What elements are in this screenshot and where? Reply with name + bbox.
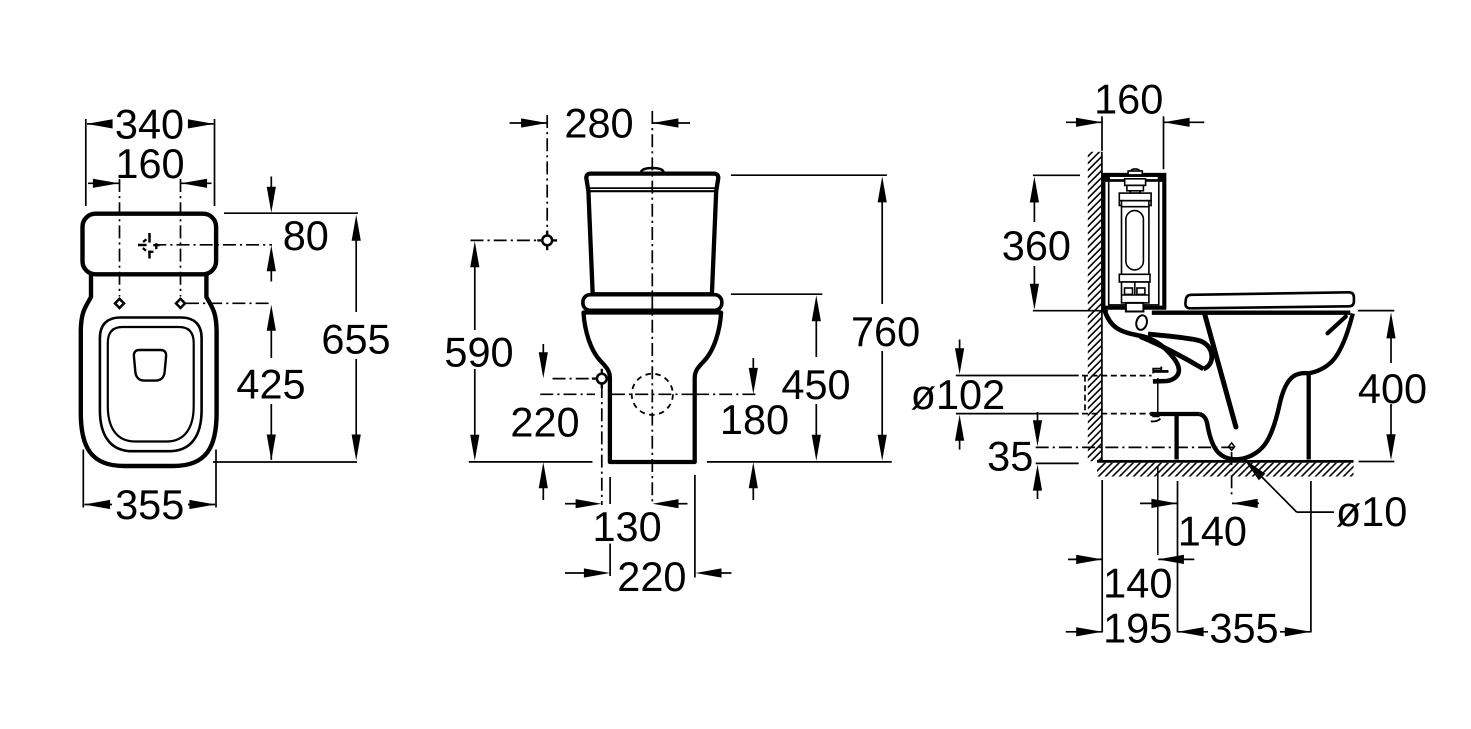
side view: floor hatching (1090, 459, 1368, 478)
svg-text:195: 195 (1103, 604, 1172, 651)
dim 400 extension top (1358, 310, 1395, 312)
dim ø102 line lower (956, 413, 1079, 415)
top view: fixing cross symbol (138, 233, 160, 259)
top view: hole centerline right (vertical dash-dot) (180, 179, 182, 297)
front view: cistern tank outline (586, 174, 718, 295)
side view: supply dashed vertical (1084, 376, 1086, 414)
top view: hole centerline left (vertical dash-dot) (119, 179, 121, 297)
side view: tank lid line (1104, 179, 1164, 181)
dim 160 extension left (1101, 116, 1103, 151)
top view: fixing hole diamond left (115, 299, 124, 308)
side view: tank inner wall (1109, 181, 1159, 305)
dim 655 line+arrows (355, 226, 357, 312)
dim 590 line+arrows (474, 252, 476, 330)
svg-text:355: 355 (1209, 604, 1278, 651)
dim ø10 leader (1248, 463, 1297, 513)
front view: flush button dome (640, 168, 666, 174)
top view: seat outer ring (100, 318, 202, 452)
dim 340 line+arrows (87, 123, 112, 125)
dim ø102 arrows (959, 340, 961, 350)
dim 360 extension bottom (1033, 310, 1108, 312)
dim 160 arrows (1066, 121, 1102, 123)
front view: water inlet centerline (vertical dash-dot) (546, 115, 548, 235)
dim 80 arrows (270, 177, 272, 191)
svg-text:ø10: ø10 (1336, 488, 1408, 535)
dim 340 extension line right (214, 119, 216, 206)
dim 130 arrows (565, 503, 576, 505)
svg-text:130: 130 (592, 503, 661, 550)
dim 220 left arrows (542, 344, 544, 357)
front view: seat shadow line (599, 311, 705, 313)
front view: drain centerline left (dash-dot) (540, 393, 595, 395)
svg-text:140: 140 (1178, 507, 1247, 554)
side view: pedestal front-left leg (1174, 415, 1178, 460)
top view: seat inner ring (108, 327, 194, 442)
side view: tank lid corner bolts (1105, 177, 1110, 182)
side view: wall hatching (746, 132, 1427, 470)
svg-text:450: 450 (781, 361, 850, 408)
svg-text:220: 220 (510, 398, 579, 445)
side view: fill/flush valve mechanism (1119, 169, 1151, 303)
front view: inlet target symbol (537, 231, 557, 251)
side view: rim channel lower stroke (1140, 337, 1204, 370)
top view: tank centerline (horizontal dash-dot) (153, 244, 272, 246)
dim 450 extension line top (731, 293, 822, 295)
svg-text:160: 160 (115, 140, 184, 187)
front view: drain dashed circle (632, 374, 673, 415)
side view: bowl front curve (1309, 314, 1353, 374)
svg-text:180: 180 (720, 396, 789, 443)
side view: drain diamond (1229, 443, 1235, 450)
side view: bowl deck / rim line (1152, 311, 1351, 315)
svg-text:760: 760 (851, 308, 920, 355)
dim 400 extension bottom (1359, 461, 1395, 463)
side view: rim channel upper stroke (1148, 334, 1212, 369)
svg-text:ø102: ø102 (911, 371, 1006, 418)
top view: bowl body outline (81, 271, 217, 466)
dim 140 lower arrows (1068, 558, 1102, 560)
side view: stub connecting line (1157, 378, 1159, 414)
pedestal extension line right (694, 475, 696, 578)
dim 180 arrows (752, 358, 754, 371)
pedestal front extension below floor (1177, 481, 1179, 633)
side view: supply dashed line lower (1082, 413, 1150, 415)
side view: upper outlet stub (1153, 370, 1169, 373)
front view: inlet cross horizontal (dash-dot) (471, 239, 554, 241)
side view: bowl back diagonal (1205, 315, 1236, 428)
left view bottom extension line (213, 461, 357, 463)
side view: pedestal front-right leg (1307, 374, 1311, 460)
svg-text:590: 590 (444, 329, 513, 376)
side view: flush elbow curve and bowl back S-curve (1104, 309, 1179, 381)
dim 35 drain centerline (dash-dot) (1036, 446, 1238, 448)
dim ø102 line upper (956, 375, 1079, 377)
side view: supply dashed line upper (1082, 375, 1152, 377)
pedestal rear extension below floor (1310, 481, 1312, 633)
svg-text:280: 280 (564, 100, 633, 147)
tank top extension line (to 80/655 dims) (224, 212, 358, 214)
front view: drain centerline right (dash-dot) (696, 393, 758, 395)
pedestal extension line left (609, 477, 611, 504)
front view: side hole target symbol (592, 369, 612, 389)
dim 35 arrows (1037, 412, 1039, 421)
svg-text:140: 140 (1103, 559, 1172, 606)
dim 280 arrows (510, 122, 548, 124)
dim 355 line+arrows (85, 504, 113, 506)
svg-text:425: 425 (236, 361, 305, 408)
side view: floor line (1097, 460, 1354, 463)
dim 360 line+arrows (1033, 187, 1035, 222)
front view: bowl and pedestal outline (584, 313, 722, 463)
dim 425 line+arrows (270, 317, 272, 358)
side view: tank outlet stub (1126, 303, 1144, 312)
front view: vertical centerline (dash-dot) (651, 111, 653, 505)
outlet stub extension below floor (1157, 466, 1159, 555)
dim 140 upper arrows (1140, 502, 1177, 504)
svg-text:220: 220 (617, 553, 686, 600)
dim 35 floor extension (1036, 462, 1079, 464)
dim 760 extension line top (731, 174, 887, 176)
dim 360 extension top (1033, 174, 1080, 176)
top view: hole line to 425 dim (horizontal dash-dot) (186, 302, 272, 304)
dim 340 extension line left (85, 119, 87, 206)
top view: cistern tank outline (83, 214, 217, 275)
side view: flush elbow oval (1135, 314, 1149, 331)
front view floor extension right (707, 461, 892, 463)
dim 400 line+arrows (1390, 324, 1392, 363)
side view: lower outlet stub hook (1151, 416, 1161, 421)
front view: seat slab (583, 295, 722, 311)
front view: side hole centerline (horizontal dash-dot) (553, 378, 596, 380)
front view: side hole centerline vertical (dash-dot) (601, 385, 603, 505)
svg-text:360: 360 (1002, 222, 1071, 269)
dim 160 arrows (88, 182, 119, 184)
dim 450 line+arrows (815, 306, 817, 357)
dim 195 arrow (1066, 631, 1102, 633)
dim 160 extension right (1163, 116, 1165, 169)
wall face extension below floor (1101, 480, 1103, 633)
dim 220 bottom arrows (565, 572, 584, 574)
drain centerline below floor (dash-dot) (1231, 452, 1233, 498)
svg-text:80: 80 (283, 212, 329, 259)
dim 355 extension line left (82, 450, 84, 508)
front view: tank lid lines (589, 187, 716, 189)
side view: trap U curve (1200, 373, 1309, 459)
svg-text:400: 400 (1358, 365, 1427, 412)
side view: inner rim stroke (1328, 317, 1346, 334)
svg-text:655: 655 (321, 315, 390, 362)
side view: seat profile (1185, 292, 1354, 308)
side view: pedestal top-left edge (1150, 412, 1200, 416)
front view floor extension left (469, 461, 593, 463)
side view: wall face line (1101, 152, 1103, 462)
dim 355 line+arrows (1178, 631, 1208, 633)
top view: drain opening (134, 350, 166, 381)
svg-text:35: 35 (987, 432, 1033, 479)
svg-text:160: 160 (1094, 75, 1163, 122)
svg-text:355: 355 (115, 481, 184, 528)
dim 355 extension line right (215, 450, 217, 508)
top view: fixing hole diamond right (176, 299, 185, 308)
front view: drain centerline through pedestal (dash-dot) (612, 393, 693, 395)
dim 760 line+arrows (881, 187, 883, 304)
side view: tank outer box (1103, 175, 1164, 308)
